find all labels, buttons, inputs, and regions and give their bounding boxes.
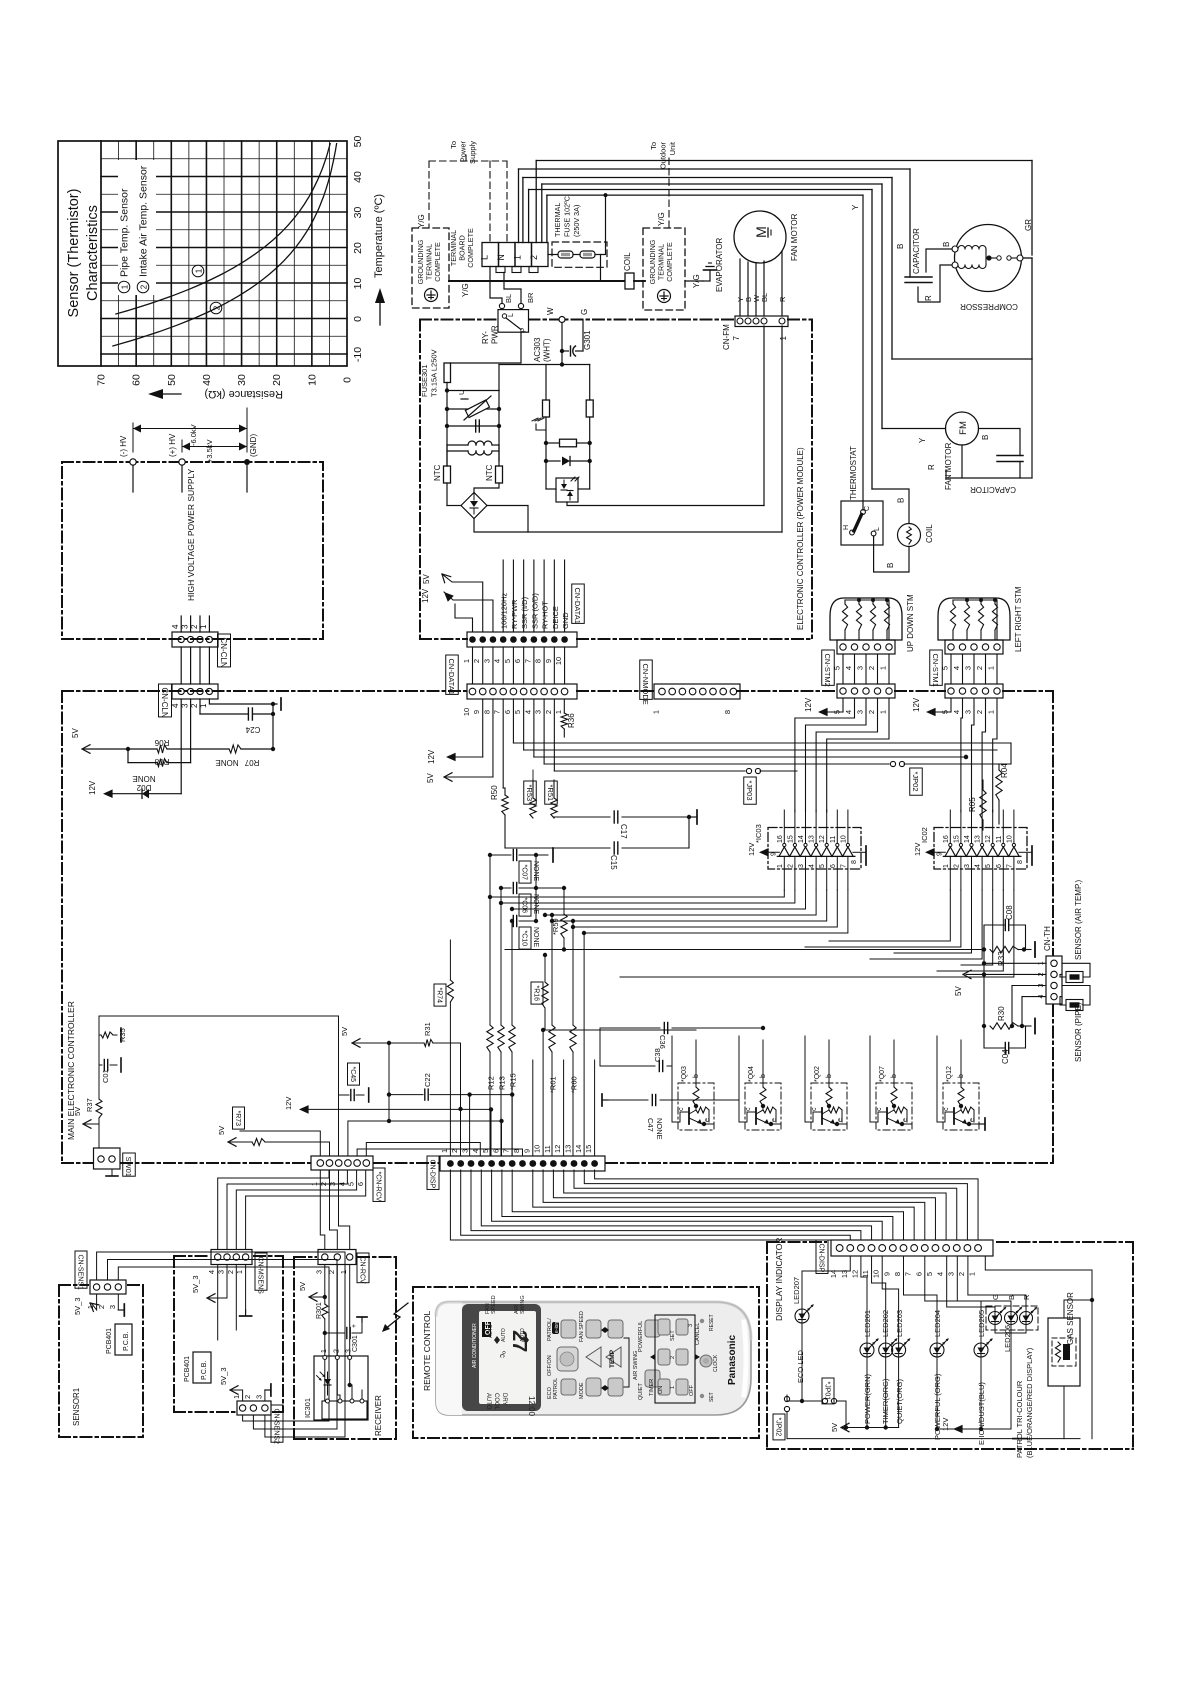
OFF badge	[482, 1322, 491, 1337]
connector CN-SENS1	[90, 1280, 126, 1294]
svg-text:1: 1	[879, 710, 888, 714]
coil inline	[625, 273, 634, 289]
svg-text:LED206: LED206	[1003, 1325, 1012, 1352]
svg-text:1: 1	[943, 864, 950, 868]
svg-text:2: 2	[867, 710, 876, 714]
svg-text:R04: R04	[1000, 763, 1009, 778]
transistor *Q03	[678, 1083, 714, 1130]
compressor terminals	[952, 246, 958, 252]
R31 resistor and 5V	[352, 1043, 360, 1047]
svg-text:ºc: ºc	[498, 1351, 507, 1358]
svg-text:10: 10	[352, 278, 364, 290]
svg-text:5V: 5V	[73, 1107, 82, 1116]
sensor characteristics graph frame	[58, 141, 347, 366]
svg-text:5: 5	[513, 710, 522, 714]
wire to CN-FM pin2	[567, 502, 764, 506]
svg-text:3: 3	[254, 1395, 263, 1399]
svg-text:LED207: LED207	[792, 1277, 801, 1304]
outdoor capacitor	[979, 429, 1021, 456]
svg-text:AUTO: AUTO	[485, 1393, 491, 1410]
svg-text:7: 7	[732, 335, 741, 340]
R04 resistor	[1010, 743, 1012, 764]
svg-text:c: c	[943, 1107, 950, 1111]
msens internal wires	[217, 1265, 219, 1341]
LED205 e-ion	[925, 1256, 981, 1343]
5V_3 msens	[209, 1265, 227, 1299]
svg-text:5V: 5V	[298, 1282, 307, 1291]
RCV pin4 wire	[348, 1095, 389, 1156]
svg-text:2: 2	[975, 710, 984, 714]
transistor *Q02	[811, 1083, 847, 1130]
svg-text:PCB401: PCB401	[106, 1328, 113, 1354]
rail 364	[499, 364, 590, 366]
svg-text:1: 1	[321, 1349, 328, 1353]
svg-text:0: 0	[352, 316, 364, 322]
svg-text:R05: R05	[968, 797, 977, 812]
5V rail leds	[843, 1427, 899, 1429]
svg-text:4: 4	[952, 666, 961, 670]
svg-text:DEICE: DEICE	[551, 606, 560, 629]
svg-text:REMOTE CONTROL: REMOTE CONTROL	[422, 1310, 432, 1391]
svg-text:FAN MOTOR: FAN MOTOR	[944, 442, 953, 490]
svg-text:AIR CONDITIONER: AIR CONDITIONER	[472, 1323, 478, 1368]
svg-text:-6.0kV: -6.0kV	[189, 424, 198, 446]
svg-text:BR: BR	[526, 292, 535, 303]
*Q04 base wire	[762, 1040, 764, 1076]
button PATROL e-ion	[561, 1320, 576, 1338]
svg-text:15: 15	[787, 835, 794, 843]
svg-text:40: 40	[201, 374, 213, 386]
svg-text:C17: C17	[619, 824, 628, 839]
svg-text:3: 3	[482, 659, 491, 663]
svg-text:5V: 5V	[340, 1027, 349, 1036]
svg-text:LED202: LED202	[881, 1310, 890, 1337]
svg-text:5: 5	[985, 864, 992, 868]
IC03 input bus wires	[490, 890, 784, 897]
svg-text:C22: C22	[423, 1073, 432, 1087]
RCV pin6 wire	[366, 1143, 480, 1157]
svg-text:R08: R08	[154, 757, 169, 766]
svg-text:*Q12: *Q12	[946, 1066, 953, 1082]
12V rail leds	[955, 1428, 1011, 1430]
sens1 loop wires	[97, 1252, 345, 1437]
svg-text:PWR: PWR	[491, 325, 500, 344]
svg-text:R30: R30	[997, 1006, 1006, 1021]
outdoor fan motor FM	[881, 184, 883, 429]
svg-text:2: 2	[867, 666, 876, 670]
air temp signal to controller	[505, 949, 984, 951]
svg-text:R: R	[924, 295, 933, 301]
svg-text:CANCEL: CANCEL	[695, 1323, 701, 1345]
svg-text:*C06: *C06	[520, 898, 527, 914]
svg-text:3: 3	[946, 1272, 955, 1276]
svg-text:L: L	[874, 527, 881, 531]
R01 R60 resistors	[551, 915, 553, 1025]
svg-text:3: 3	[180, 624, 189, 629]
svg-text:GND: GND	[561, 612, 570, 629]
svg-text:8: 8	[893, 1272, 902, 1276]
connector CN-STM2	[837, 684, 895, 698]
svg-text:12V: 12V	[284, 1097, 293, 1110]
svg-text:5V_3: 5V_3	[219, 1367, 228, 1385]
svg-text:5V_3: 5V_3	[191, 1275, 200, 1293]
svg-text:3: 3	[964, 710, 973, 714]
R33 resistor	[990, 946, 1018, 952]
optocoupler	[556, 478, 578, 502]
svg-text:CN-STM1: CN-STM1	[931, 654, 940, 687]
*Q03 collector wire	[672, 1036, 680, 1122]
connector CN-CLN upper	[172, 632, 218, 647]
svg-text:G: G	[580, 309, 589, 315]
svg-text:B: B	[897, 498, 906, 503]
svg-text:*IC03: *IC03	[754, 824, 763, 843]
SW01 ground	[111, 1169, 113, 1176]
svg-text:6: 6	[830, 864, 837, 868]
svg-text:IC301: IC301	[303, 1398, 312, 1418]
svg-text:*R73: *R73	[234, 1111, 241, 1127]
power module top border	[420, 319, 498, 321]
RCV pin5 wire	[357, 1149, 522, 1156]
connector CN-DISP lower	[831, 1240, 993, 1256]
C45 capacitor	[348, 1063, 360, 1085]
svg-text:4: 4	[523, 710, 532, 714]
5V rail	[84, 748, 157, 750]
capacitor C06 NONE	[501, 887, 511, 889]
capacitor C10 NONE	[511, 920, 512, 922]
svg-text:11: 11	[996, 836, 1003, 843]
W node and AC303	[559, 317, 565, 323]
RCV pin3 wire up	[99, 1016, 339, 1156]
LED204 powerful	[904, 1256, 938, 1343]
svg-text:BL: BL	[760, 293, 769, 302]
capacitor C07 NONE	[490, 854, 511, 856]
NTC resistor 2	[496, 466, 503, 483]
LCD dark frame	[462, 1304, 541, 1411]
svg-text:40: 40	[352, 171, 364, 183]
svg-text:2: 2	[213, 305, 222, 310]
svg-text:50: 50	[166, 374, 178, 386]
svg-text:*C45: *C45	[349, 1067, 356, 1083]
svg-text:2: 2	[957, 1272, 966, 1276]
svg-text:NTC: NTC	[433, 464, 442, 481]
svg-text:*R15: *R15	[509, 1073, 518, 1090]
svg-text:RECEIVER: RECEIVER	[374, 1395, 383, 1436]
svg-text:CN-FM: CN-FM	[722, 324, 731, 350]
svg-text:(250V 3A): (250V 3A)	[572, 205, 581, 237]
svg-text:COMPLETE: COMPLETE	[665, 242, 674, 282]
svg-text:10: 10	[554, 657, 563, 665]
SENSOR1 box	[59, 1284, 88, 1286]
svg-text:MAIN ELECTRONIC CONTROLLER: MAIN ELECTRONIC CONTROLLER	[66, 1001, 76, 1140]
signal wires above CN-DATA1	[502, 560, 504, 632]
svg-text:CN-NMODE: CN-NMODE	[641, 664, 650, 705]
curve marker 1	[192, 265, 204, 277]
svg-text:CAPACITOR: CAPACITOR	[970, 485, 1016, 494]
*Q04 collector wire	[739, 1036, 747, 1122]
GR wire from bus	[1031, 161, 1033, 256]
12V arrow	[103, 789, 113, 798]
compressor R wire	[918, 265, 952, 302]
svg-text:C38: C38	[653, 1048, 662, 1062]
bundle CN-DISP upper to lower	[450, 1170, 839, 1240]
*IC03 gates	[779, 847, 790, 856]
wire compressor link	[891, 178, 893, 360]
svg-text:0: 0	[342, 377, 354, 383]
svg-text:12V: 12V	[427, 749, 436, 764]
evaporator ground	[685, 280, 703, 282]
5V arrow SW01	[85, 1123, 99, 1125]
*IC03 12V arrow	[759, 848, 769, 857]
svg-text:6: 6	[356, 1182, 365, 1186]
stepper motor connector LEFT RIGHT STM	[945, 640, 1003, 654]
svg-text:12V: 12V	[912, 697, 921, 712]
svg-text:5: 5	[481, 1149, 490, 1153]
svg-text:16: 16	[943, 835, 950, 843]
capacitor C01	[99, 1064, 102, 1066]
svg-text:R06: R06	[154, 738, 169, 747]
relay to fuse wire	[451, 332, 522, 363]
svg-text:PCB401: PCB401	[184, 1356, 191, 1382]
svg-text:4: 4	[809, 864, 816, 868]
svg-text:1: 1	[232, 1395, 241, 1399]
svg-text:B: B	[896, 244, 905, 249]
svg-text:2: 2	[450, 1149, 459, 1153]
svg-text:P.C.B.: P.C.B.	[123, 1332, 130, 1351]
svg-text:H: H	[843, 525, 850, 530]
sensor curve 1	[116, 144, 330, 314]
*IC03 gate baseline	[777, 855, 855, 857]
svg-text:e: e	[704, 1118, 711, 1122]
R51 resistor	[545, 781, 558, 804]
svg-text:1: 1	[121, 284, 130, 289]
thermal fuse box	[552, 242, 607, 267]
svg-text:4: 4	[471, 1149, 480, 1153]
svg-text:3: 3	[108, 1305, 117, 1309]
button OFF/ON	[557, 1347, 578, 1371]
svg-text:(WHT): (WHT)	[543, 338, 552, 362]
button POWERFUL	[645, 1320, 660, 1337]
transistor *Q04	[745, 1083, 781, 1130]
svg-text:CN-MSENS: CN-MSENS	[256, 1257, 263, 1295]
C301 capacitor	[323, 1331, 327, 1335]
connector CN-DATA1 main side	[467, 684, 577, 699]
svg-text:10: 10	[872, 1270, 881, 1278]
svg-text:AUTO: AUTO	[501, 1328, 507, 1342]
svg-text:(+) HV: (+) HV	[168, 433, 177, 457]
svg-text:10: 10	[462, 708, 471, 716]
R301 resistor	[324, 1265, 326, 1305]
svg-text:e: e	[969, 1118, 976, 1122]
svg-text:4: 4	[171, 624, 180, 629]
svg-text:70: 70	[96, 374, 108, 386]
svg-text:CN-STM2: CN-STM2	[823, 654, 832, 687]
svg-text:OFF/ON: OFF/ON	[547, 1355, 553, 1376]
svg-text:UP DOWN STM: UP DOWN STM	[906, 594, 915, 652]
svg-text:Resistance (kΩ): Resistance (kΩ)	[204, 388, 283, 400]
jumper JP03	[746, 768, 751, 773]
svg-text:12:00: 12:00	[527, 1396, 536, 1417]
connector CN-DATA1 power module side	[467, 632, 577, 647]
svg-text:L: L	[508, 313, 515, 317]
svg-text:FM: FM	[958, 421, 969, 435]
svg-text:5: 5	[819, 864, 826, 868]
IR lightning symbol	[384, 1303, 408, 1330]
high voltage power supply box	[62, 462, 323, 639]
svg-text:e: e	[902, 1118, 909, 1122]
svg-text:9: 9	[882, 1272, 891, 1276]
svg-text:AC303: AC303	[533, 337, 542, 362]
svg-text:4: 4	[952, 710, 961, 714]
svg-text:SENSOR (AIR TEMP.): SENSOR (AIR TEMP.)	[1074, 880, 1083, 961]
svg-text:7: 7	[840, 864, 847, 868]
CLOCK button	[700, 1355, 712, 1367]
svg-text:L: L	[480, 255, 490, 260]
svg-text:R: R	[927, 464, 936, 470]
compressor circle	[955, 225, 1022, 292]
svg-text:7: 7	[502, 1149, 511, 1153]
svg-text:FUSE301: FUSE301	[420, 364, 429, 397]
button FAN SPEED	[586, 1320, 601, 1338]
thermostat L to coil loop	[874, 536, 909, 572]
svg-text:3: 3	[964, 864, 971, 868]
R30 resistor	[990, 1023, 1018, 1029]
IC301 box	[314, 1356, 368, 1420]
svg-text:Y/G: Y/G	[417, 214, 426, 228]
svg-text:8: 8	[534, 659, 543, 663]
svg-text:Y: Y	[918, 437, 927, 443]
svg-text:QUIET(ORG): QUIET(ORG)	[895, 1379, 904, 1424]
svg-text:G301: G301	[583, 330, 592, 350]
svg-text:R13: R13	[498, 1076, 507, 1090]
grounding terminal complete box 2	[643, 228, 685, 310]
connector *CN-RCV	[311, 1156, 373, 1170]
remote control box	[413, 1287, 759, 1438]
svg-text:SSR (O/D): SSR (O/D)	[530, 593, 539, 629]
svg-text:LED204: LED204	[933, 1310, 942, 1337]
connector CN-TH	[1046, 956, 1062, 1004]
horizontal resistor	[546, 442, 560, 444]
svg-text:1: 1	[339, 1270, 348, 1274]
terminal (+) HV	[179, 459, 185, 465]
svg-text:*JP02: *JP02	[911, 772, 920, 792]
terminal board complete	[482, 243, 499, 267]
svg-text:8: 8	[512, 1149, 521, 1153]
connector CN-MSENS	[211, 1250, 252, 1265]
resistor R37	[96, 1099, 102, 1118]
svg-text:ELECTRONIC CONTROLLER (POWER M: ELECTRONIC CONTROLLER (POWER MODULE)	[796, 447, 805, 630]
LED202 timer	[872, 1256, 886, 1343]
svg-text:7: 7	[523, 659, 532, 663]
capacitor C24 on pin2 line	[199, 699, 201, 714]
svg-text:20: 20	[352, 242, 364, 254]
svg-text:Panasonic: Panasonic	[727, 1335, 738, 1385]
svg-text:C04: C04	[1001, 1049, 1010, 1064]
svg-text:C301: C301	[352, 1335, 359, 1352]
bus wires to outdoor unit	[536, 160, 1032, 162]
svg-text:Temperature (ºC): Temperature (ºC)	[373, 194, 385, 278]
svg-text:2: 2	[97, 1305, 106, 1309]
button ECO PATROL	[561, 1379, 576, 1395]
chassis ground symbol	[536, 424, 546, 430]
svg-text:1: 1	[777, 864, 784, 868]
svg-text:c: c	[876, 1107, 883, 1111]
svg-text:7: 7	[904, 1272, 913, 1276]
dashed leads to power supply	[429, 160, 507, 162]
svg-text:SENSOR (PIPE): SENSOR (PIPE)	[1074, 1002, 1083, 1062]
C47 capacitor NONE	[602, 1099, 608, 1101]
R12 R13 R15 resistors	[489, 855, 491, 1025]
svg-text:R07: R07	[244, 758, 259, 767]
msens PCB401	[193, 1352, 211, 1383]
svg-text:3: 3	[964, 666, 973, 670]
svg-text:12V: 12V	[421, 588, 430, 603]
svg-text:8: 8	[482, 710, 491, 714]
svg-text:*Q03: *Q03	[681, 1066, 688, 1082]
display indicator box	[767, 1241, 826, 1243]
*IC03 ground	[853, 851, 866, 853]
svg-text:*JP03: *JP03	[745, 781, 754, 801]
svg-text:5V: 5V	[217, 1126, 226, 1135]
*Q02 base wire	[828, 1040, 830, 1076]
R05 resistor	[980, 790, 986, 820]
svg-text:9: 9	[544, 659, 553, 663]
svg-text:Unit: Unit	[668, 141, 677, 155]
svg-text:SPEED: SPEED	[491, 1295, 497, 1314]
LED201 power	[861, 1256, 867, 1343]
svg-text:1: 1	[195, 268, 204, 273]
svg-text:COIL: COIL	[925, 524, 934, 543]
svg-text:13: 13	[809, 835, 816, 843]
svg-text:1: 1	[779, 335, 788, 340]
grounding terminal complete box 1	[412, 228, 449, 308]
C22 capacitor	[388, 1043, 390, 1095]
svg-text:12: 12	[985, 835, 992, 843]
RESET hole	[700, 1319, 704, 1323]
svg-text:NONE: NONE	[132, 774, 155, 783]
svg-text:B: B	[942, 242, 951, 247]
*Q07 collector wire	[870, 1036, 878, 1122]
svg-text:(GND): (GND)	[249, 434, 258, 457]
pin1 hook wire	[455, 604, 473, 632]
svg-text:5V: 5V	[71, 728, 80, 738]
fan motor wires to CN-FM	[739, 259, 741, 316]
svg-text:CN-SENS2: CN-SENS2	[272, 1409, 279, 1445]
LED207 eco led	[802, 1256, 850, 1309]
terminal board tabs	[496, 267, 505, 273]
svg-text:2: 2	[140, 284, 149, 289]
svg-text:2: 2	[327, 1270, 336, 1274]
Q12 emitter ground	[979, 1123, 985, 1125]
svg-text:2: 2	[472, 659, 481, 663]
svg-text:W: W	[546, 307, 555, 315]
svg-text:COMPLETE: COMPLETE	[466, 228, 475, 268]
relay RY-PWR	[499, 303, 504, 308]
svg-text:MODE: MODE	[579, 1382, 585, 1399]
svg-text:C15: C15	[609, 855, 618, 870]
svg-text:PATROL: PATROL	[553, 1378, 559, 1399]
svg-text:LEFT RIGHT STM: LEFT RIGHT STM	[1014, 586, 1023, 652]
svg-text:COMPLETE: COMPLETE	[433, 242, 442, 282]
svg-text:CN-RCV: CN-RCV	[358, 1257, 365, 1285]
svg-text:5V: 5V	[426, 773, 435, 783]
wires CN-STM2 to *IC03	[795, 698, 855, 812]
sens2 ground	[264, 1390, 266, 1401]
IC301 photodiode	[324, 1379, 331, 1385]
svg-text:AIR SWING: AIR SWING	[633, 1351, 639, 1380]
wires CN-STM1 to IC02	[961, 698, 963, 812]
svg-text:R: R	[778, 296, 787, 302]
svg-text:2: 2	[190, 624, 199, 629]
